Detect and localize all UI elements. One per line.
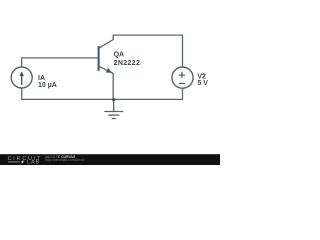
svg-text:2N2222: 2N2222 [114,60,141,67]
svg-text:5 V: 5 V [197,80,208,87]
svg-text:IA: IA [38,75,45,82]
svg-text:10 µA: 10 µA [38,82,57,89]
svg-text:http://circuitlab.com/6crxw: http://circuitlab.com/6crxw [45,158,85,162]
svg-text:QA: QA [114,51,125,58]
svg-text:LAB: LAB [27,160,40,165]
